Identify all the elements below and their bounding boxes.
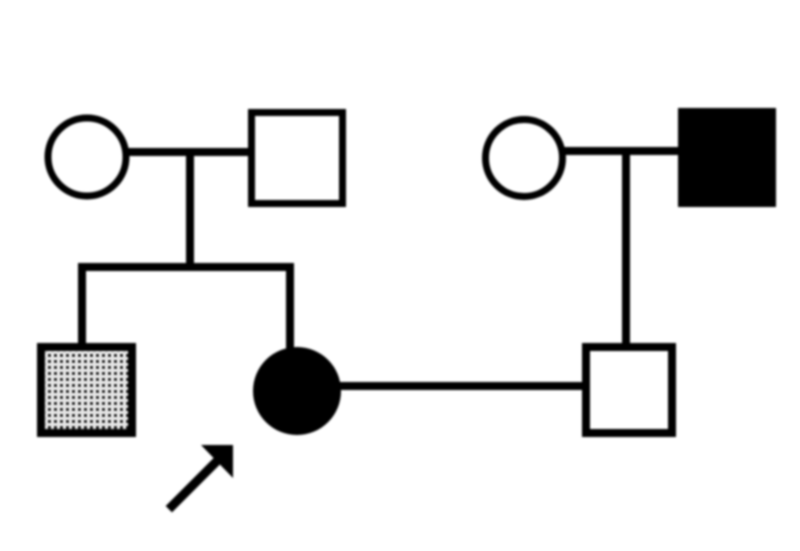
wire: couple line left (I-1 to I-2) bbox=[124, 148, 252, 156]
wire: descent line from left couple bbox=[186, 152, 194, 267]
wire: couple line bottom (II-2 to II-3) bbox=[336, 382, 586, 390]
proband arrow pointing to II-2 bbox=[172, 445, 233, 506]
individual I-1: unaffected female (open circle) bbox=[48, 118, 126, 196]
individual I-2: unaffected male (open square) bbox=[252, 113, 343, 204]
individual I-3: unaffected female (open circle) bbox=[486, 120, 563, 197]
individual II-2: affected female (filled circle), proband bbox=[253, 347, 341, 435]
wire: sibship line left family bbox=[82, 263, 290, 271]
wire: drop to II-2 bbox=[286, 263, 294, 352]
individual II-3: unaffected male (open square) bbox=[586, 347, 672, 433]
wire: couple line right (I-3 to I-4) bbox=[560, 147, 682, 155]
wire: descent line from right couple to II-3 bbox=[622, 151, 630, 346]
individual II-1: carrier male (stippled square) bbox=[41, 347, 132, 433]
wire: drop to II-1 bbox=[78, 263, 86, 346]
individual I-4: affected male (filled square) bbox=[678, 108, 776, 207]
